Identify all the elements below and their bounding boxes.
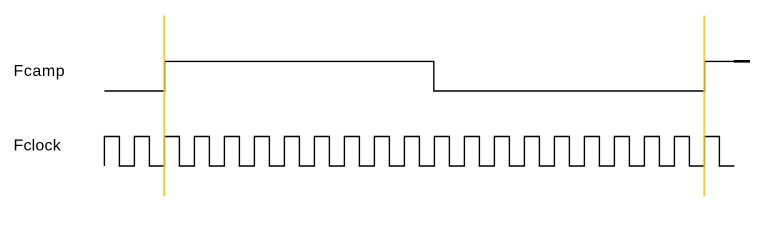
- svg-text:Fcamp: Fcamp: [14, 63, 66, 80]
- wire Fclock waveform: [104, 137, 734, 167]
- wire Fcamp end thick segment: [734, 60, 750, 63]
- node cursor line 2: [703, 16, 705, 197]
- wire Fcamp waveform: [104, 61, 750, 91]
- node cursor line 1: [163, 16, 165, 197]
- svg-text:Fclock: Fclock: [14, 138, 62, 155]
